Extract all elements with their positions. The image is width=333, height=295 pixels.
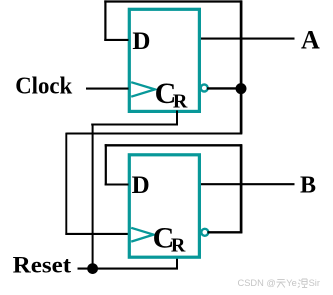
flip-flop U1 box <box>129 9 199 111</box>
svg-text:D: D <box>132 28 150 55</box>
wire reset net vertical <box>92 124 94 269</box>
wire U1 reset pin vertical <box>176 111 178 125</box>
flip-flop U1 inverted output bubble <box>201 85 208 92</box>
svg-text:Clock: Clock <box>15 73 72 100</box>
wire U1 Qbar to U2 clock left vertical <box>65 133 67 235</box>
svg-text:Sir: Sir <box>309 278 320 288</box>
svg-text:R: R <box>171 235 186 257</box>
svg-text:A: A <box>301 26 320 55</box>
wire U2 reset pin vertical <box>176 257 178 268</box>
wire U2 feedback right vertical <box>240 144 243 233</box>
svg-text:D: D <box>132 172 150 199</box>
wire U1 D input <box>104 39 128 41</box>
wire U2 D input <box>105 183 129 185</box>
wire U2 feedback left vertical <box>105 144 107 185</box>
wire U1 Qbar bubble to junction <box>207 87 241 89</box>
wire U1 feedback right vertical <box>240 0 243 133</box>
wire clock input to U1 <box>86 88 129 90</box>
wire output B <box>201 183 295 185</box>
wire U2 feedback top horizontal <box>105 144 242 146</box>
flip-flop U1 clock edge triangle <box>131 82 155 97</box>
flip-flop U2 inverted output bubble <box>201 229 208 236</box>
watermark CSDN <box>238 278 320 288</box>
wire U2 clock input <box>65 233 128 235</box>
svg-text:B: B <box>300 173 316 199</box>
wire U1 feedback left vertical <box>104 0 106 41</box>
wire U1 reset horizontal <box>91 124 178 126</box>
svg-text:R: R <box>173 90 188 112</box>
watermark glyph lang <box>298 279 307 288</box>
watermark glyph tian <box>276 279 285 287</box>
wire reset input horizontal <box>78 268 179 270</box>
flip-flop U2 box <box>129 155 199 257</box>
wire U1 Qbar to U2 clock horizontal <box>66 133 242 135</box>
flip-flop U2 clock edge triangle <box>131 228 153 242</box>
wire U1 feedback top horizontal <box>104 0 242 2</box>
svg-text:Reset: Reset <box>13 253 72 279</box>
svg-text:CSDN @: CSDN @ <box>238 278 276 288</box>
svg-text:Ye: Ye <box>286 278 297 288</box>
junction node reset <box>87 263 98 274</box>
wire output A <box>201 38 295 40</box>
junction node U1 Qbar <box>236 83 247 94</box>
wire U2 Qbar bubble to feedback <box>208 231 243 233</box>
